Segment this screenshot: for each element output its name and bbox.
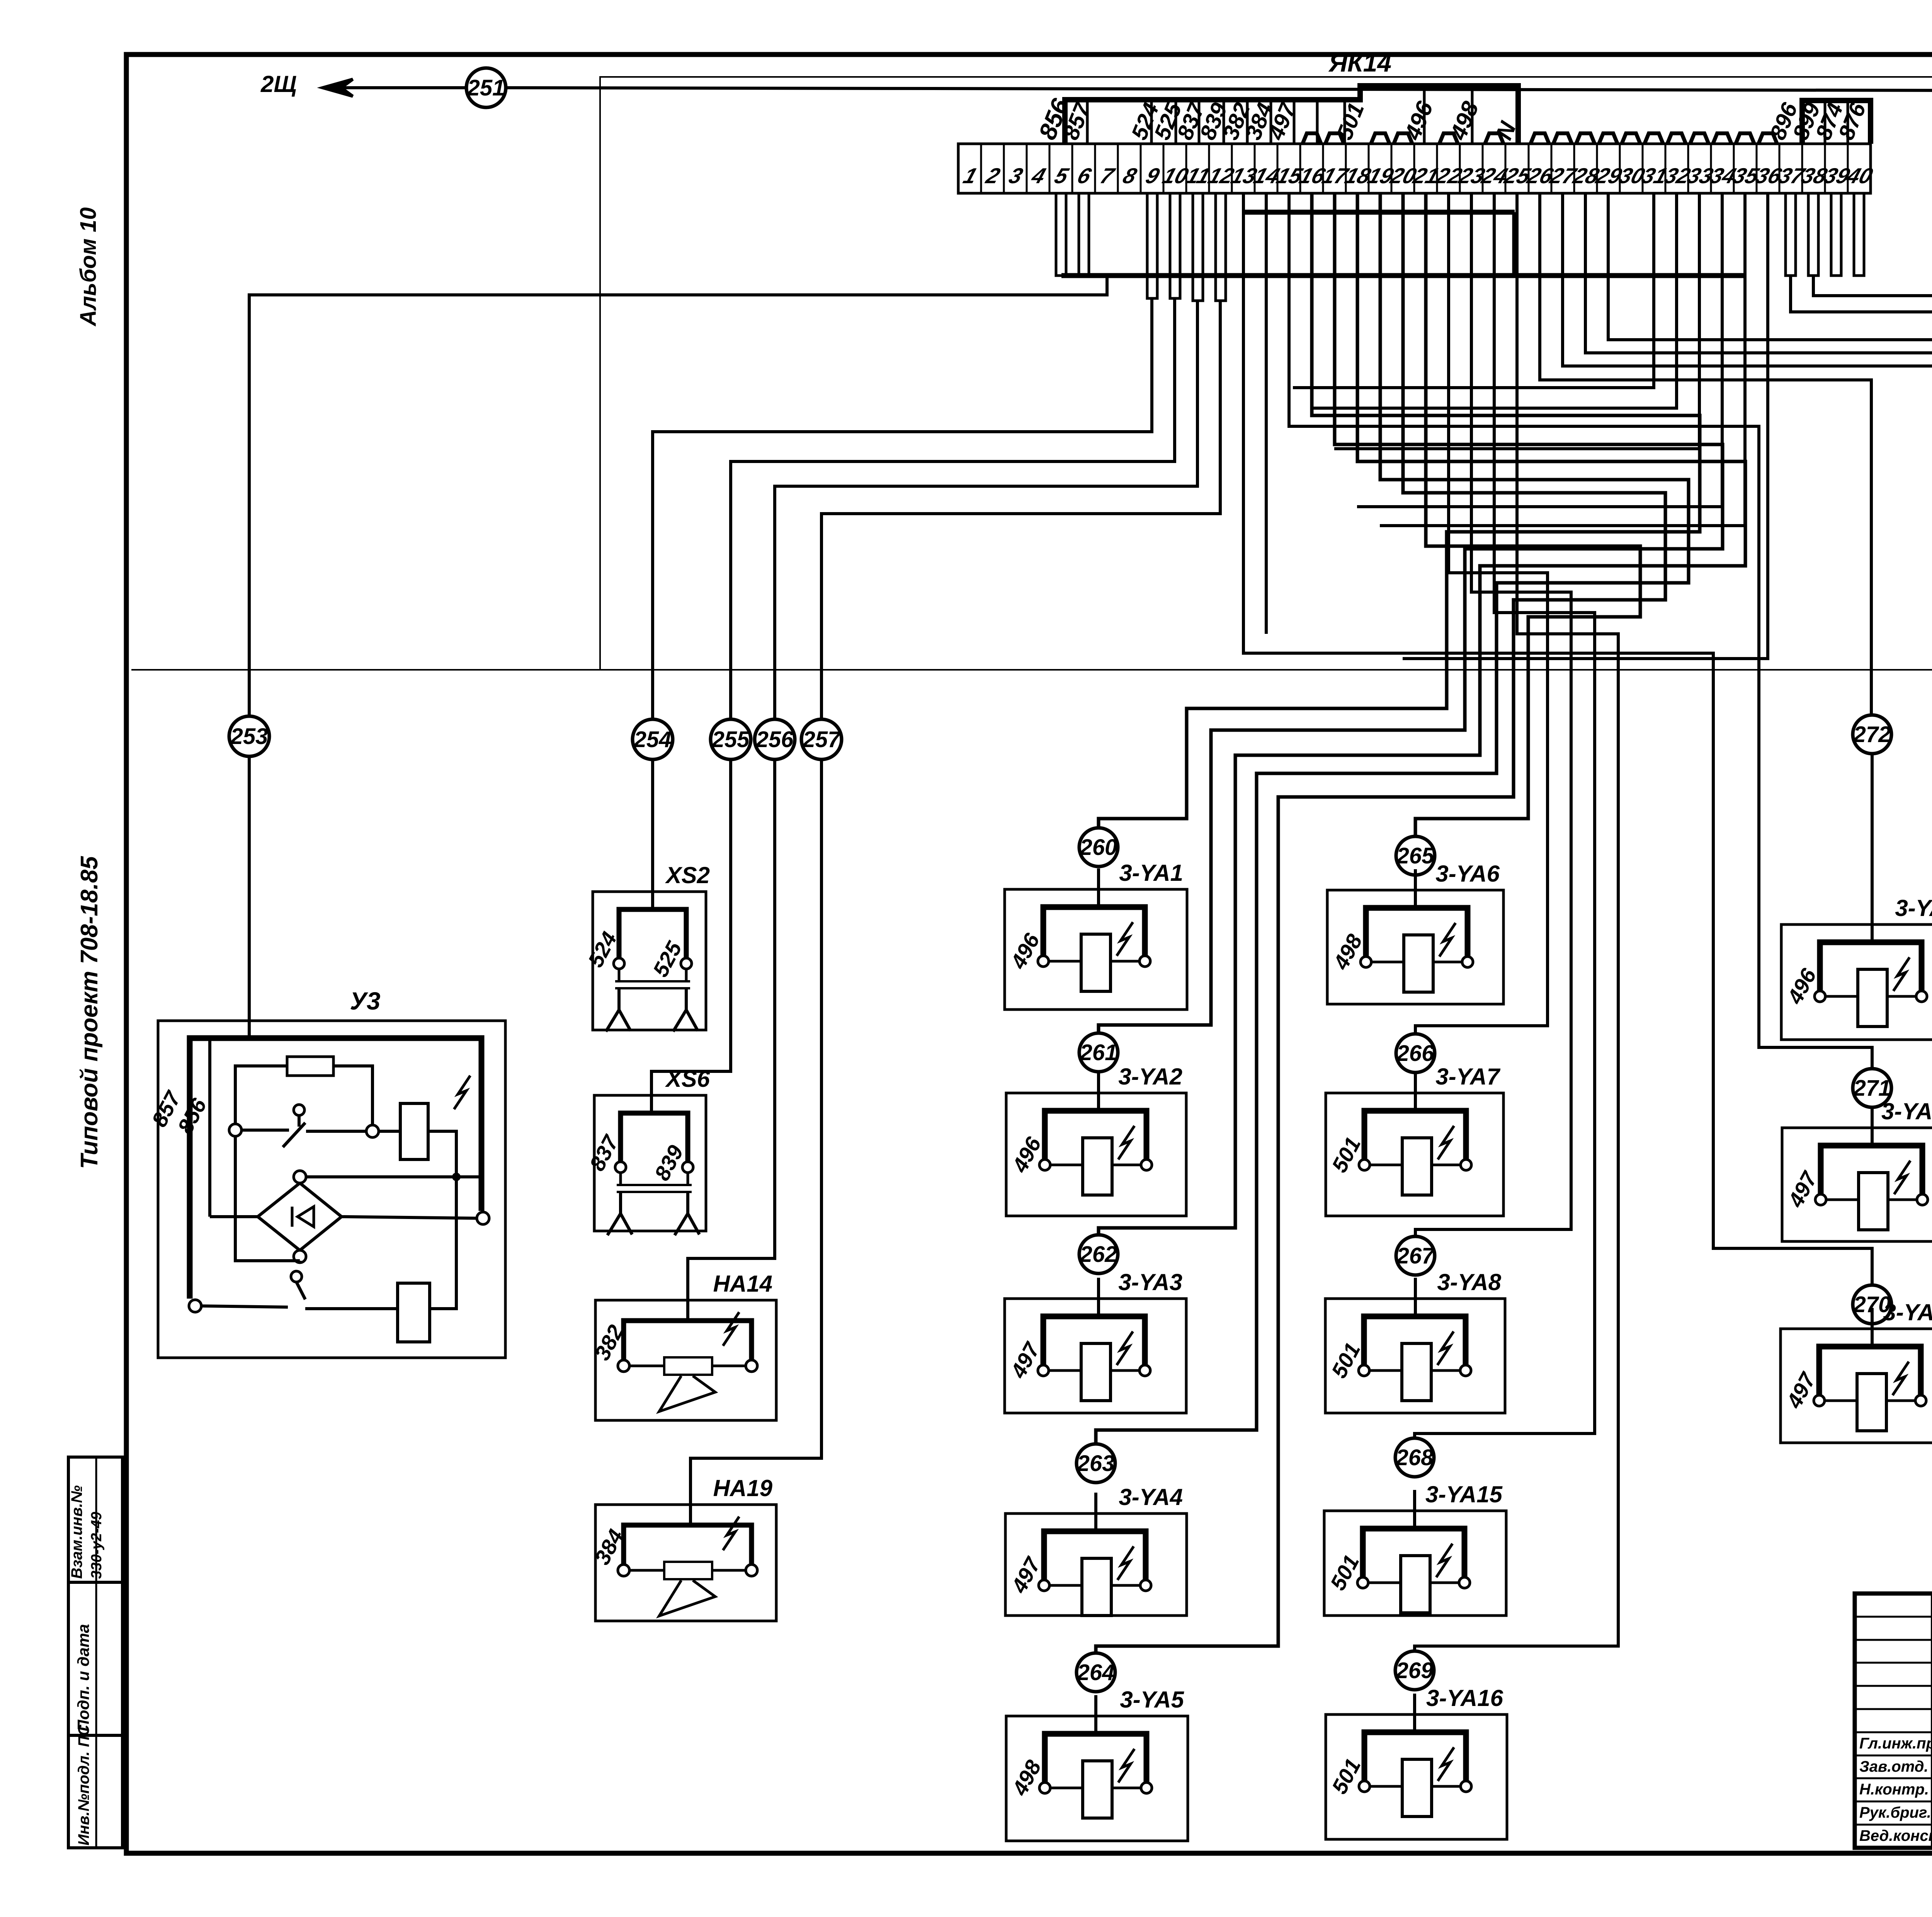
node 261 [1079, 1033, 1118, 1072]
node 272 [1853, 715, 1891, 754]
solenoid 3-YA5 [1006, 1687, 1188, 1841]
solenoid 3-YA2 [1006, 1064, 1186, 1216]
wire 251 to 252 [506, 88, 1932, 91]
node 269 [1395, 1651, 1434, 1690]
svg-text:3-YA1: 3-YA1 [1119, 860, 1183, 886]
wire t28 to node274 (net 496) [1585, 193, 1932, 718]
svg-text:3-YA2: 3-YA2 [1118, 1064, 1182, 1090]
svg-text:У3: У3 [350, 987, 381, 1015]
svg-text:Взам.инв.№: Взам.инв.№ [68, 1485, 85, 1579]
svg-text:266: 266 [1396, 1041, 1435, 1066]
horn HA14 [590, 1271, 776, 1420]
wire t14 drop [1265, 193, 1268, 634]
socket XS6 [585, 1066, 710, 1235]
left stamp box: Инв. № подл. [68, 1735, 122, 1848]
svg-text:260: 260 [1080, 835, 1117, 860]
wire t36 bus [1403, 193, 1768, 659]
wire t32 bus [1312, 193, 1677, 408]
wire t37 to node277 (net 896) [1791, 276, 1932, 722]
solenoid 3-YA15 [1324, 1481, 1506, 1616]
wire node257 to t12 (net 839) [821, 301, 1220, 720]
cabinet boundary thin rectangle [600, 77, 1932, 670]
terminal strip body (40 terminals) [958, 144, 1876, 193]
wire t21 to node265 [1415, 193, 1640, 836]
node 267 [1396, 1236, 1435, 1275]
svg-text:264: 264 [1077, 1660, 1115, 1685]
wire node253 to terminal strip (net 857) [249, 278, 1107, 717]
solenoid 3-YA9 [1781, 895, 1932, 1040]
node 270 [1853, 1285, 1891, 1324]
wire node256 to HA14 [688, 759, 775, 1321]
node 255 [711, 719, 751, 759]
svg-text:3-YA7: 3-YA7 [1435, 1064, 1500, 1090]
node 268 [1395, 1438, 1434, 1477]
wire node253 to У3 [248, 756, 251, 1038]
svg-text:3-YA5: 3-YA5 [1120, 1687, 1184, 1713]
left stamp box: Подп. и дата [68, 1582, 122, 1735]
node 265 [1396, 836, 1435, 875]
wire t35 bus [1380, 193, 1745, 526]
svg-text:Зав.отд.: Зав.отд. [1859, 1758, 1929, 1775]
wire node257 to HA19 [690, 759, 821, 1525]
svg-text:271: 271 [1853, 1076, 1891, 1101]
svg-text:263: 263 [1077, 1451, 1115, 1476]
tag boxes above terminals 38-40 (nets 899,874,876) [1802, 100, 1871, 144]
wire node271 to 3-YA12 [1871, 1107, 1874, 1146]
svg-text:272: 272 [1853, 722, 1891, 747]
wire t27 to node273 (net 498) [1563, 193, 1932, 716]
svg-text:Вед.констр: Вед.констр [1859, 1827, 1932, 1844]
node 266 [1396, 1034, 1435, 1073]
wire number tags above terminals [1033, 95, 1871, 144]
wire to 2Щ with arrow [323, 79, 466, 96]
node 262 [1079, 1235, 1118, 1273]
svg-text:3-YA9: 3-YA9 [1895, 895, 1932, 921]
wire node254 to t9 (net 524) [653, 298, 1152, 720]
svg-text:268: 268 [1396, 1445, 1434, 1470]
svg-text:Альбом 10: Альбом 10 [76, 207, 101, 327]
svg-text:Типовой проект 708-18.85: Типовой проект 708-18.85 [76, 856, 103, 1169]
wire t33 bus [1334, 193, 1699, 449]
wire node270 to 3-YA11 [1871, 1324, 1874, 1347]
node 264 [1077, 1653, 1115, 1692]
svg-text:Инв.№подл. ПС: Инв.№подл. ПС [75, 1724, 92, 1845]
node 260 [1079, 828, 1118, 867]
svg-text:256: 256 [756, 727, 794, 752]
svg-text:НА14: НА14 [713, 1271, 772, 1297]
node 263 [1077, 1444, 1115, 1483]
socket XS2 [583, 862, 710, 1032]
svg-text:3-YA3: 3-YA3 [1118, 1269, 1182, 1295]
svg-text:Рук.бриг.: Рук.бриг. [1859, 1804, 1931, 1821]
svg-text:269: 269 [1396, 1658, 1434, 1683]
svg-text:XS2: XS2 [665, 862, 710, 888]
solenoid 3-YA4 [1005, 1484, 1187, 1616]
svg-text:XS6: XS6 [665, 1066, 710, 1092]
horn HA19 [590, 1475, 776, 1621]
wire t20 to node264 [1096, 193, 1665, 1653]
wire node254 to XS2 [651, 759, 654, 909]
svg-text:Гл.инж.пр.: Гл.инж.пр. [1859, 1735, 1932, 1752]
wire t31 bus [1293, 193, 1654, 388]
solenoid 3-YA12 [1782, 1098, 1932, 1241]
wire t23 to node267 [1415, 193, 1571, 1236]
bus 549 down leg [1512, 212, 1517, 278]
node 256 [755, 719, 795, 759]
wire t22 to node266 [1415, 193, 1548, 1033]
wire t38 to node276 (net 899) [1813, 276, 1932, 718]
wire t16 to node260 [1099, 193, 1700, 827]
wire t25 to node269 [1415, 193, 1618, 1651]
solenoid 3-YA3 [1005, 1269, 1186, 1413]
svg-text:254: 254 [634, 727, 672, 752]
solenoid 3-YA11 [1781, 1299, 1932, 1443]
svg-text:Н.контр.: Н.контр. [1859, 1781, 1929, 1798]
wire t29 to node275 (net 496) [1608, 193, 1932, 722]
wire t15 to node271 [1289, 193, 1872, 1068]
hollow cable drops t5,t6,t9-t12,t37-t40 [1056, 193, 1864, 301]
svg-text:251: 251 [467, 75, 505, 100]
solenoid 3-YA8 [1325, 1269, 1505, 1413]
wire node256 to t11 (net 837) [775, 301, 1197, 720]
svg-text:261: 261 [1080, 1040, 1117, 1065]
bus 718 [1061, 273, 1745, 278]
node 257 [801, 719, 842, 759]
svg-text:Подп. и дата: Подп. и дата [74, 1624, 92, 1731]
left stamp box: Взам. инв. № [68, 1457, 122, 1582]
node 253 [229, 716, 269, 756]
wire node255 to XS6 [651, 759, 731, 1113]
wire node272 to 3-YA9 [1871, 754, 1874, 942]
title block [1855, 1594, 1932, 1848]
svg-text:262: 262 [1080, 1242, 1117, 1267]
wire t19 to node263 [1096, 193, 1689, 1444]
rectifier unit У3 [147, 987, 505, 1358]
wire node255 to t10 (net 525) [731, 298, 1175, 720]
wire t17 to node261 [1099, 193, 1723, 1033]
node 251 [466, 68, 506, 107]
terminal tag band top bars [1065, 86, 1518, 144]
wire t18 to node262 [1099, 193, 1745, 1234]
wire t26 to node272 (net 496) [1540, 193, 1871, 715]
svg-text:257: 257 [803, 727, 842, 752]
solenoid 3-YA7 [1326, 1064, 1503, 1216]
node 271 [1853, 1069, 1891, 1107]
svg-text:267: 267 [1396, 1243, 1435, 1268]
svg-text:255: 255 [712, 727, 750, 752]
solenoid 3-YA16 [1326, 1685, 1507, 1839]
solenoid 3-YA1 [1005, 860, 1187, 1010]
terminal humps (unwired terminals) [1303, 133, 1777, 144]
svg-text:3-YA12: 3-YA12 [1881, 1098, 1932, 1124]
wire t13 to node270 [1243, 193, 1872, 1285]
svg-text:НА19: НА19 [713, 1475, 773, 1501]
node 254 [633, 719, 673, 759]
svg-text:ЯК14: ЯК14 [1328, 48, 1391, 77]
wire t34 bus [1357, 193, 1722, 507]
svg-text:265: 265 [1396, 843, 1435, 868]
svg-text:330-у2-49: 330-у2-49 [88, 1512, 105, 1579]
tag dividers [1087, 86, 1472, 144]
wire t24 to node268 [1415, 193, 1595, 1438]
svg-text:3-YA8: 3-YA8 [1437, 1269, 1501, 1295]
bus 549 [1243, 210, 1515, 215]
svg-text:3-YA16: 3-YA16 [1426, 1685, 1503, 1711]
svg-text:3-YA15: 3-YA15 [1425, 1481, 1503, 1507]
svg-text:253: 253 [230, 724, 268, 749]
svg-text:2Щ: 2Щ [260, 71, 297, 97]
svg-text:3-YA6: 3-YA6 [1435, 861, 1500, 887]
solenoid 3-YA6 [1327, 861, 1503, 1004]
svg-text:3-YA4: 3-YA4 [1119, 1484, 1183, 1510]
svg-text:3-YA11: 3-YA11 [1883, 1299, 1932, 1325]
